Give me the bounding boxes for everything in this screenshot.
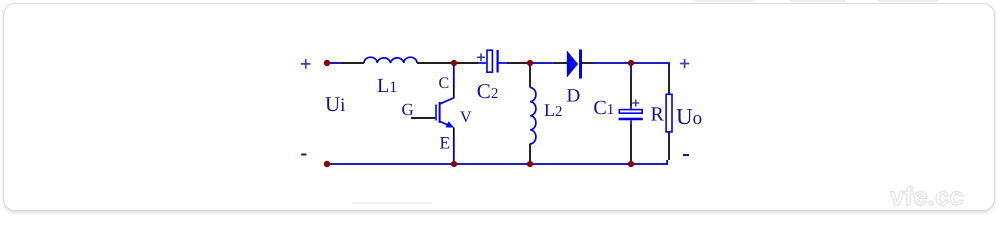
svg-text:R: R (651, 103, 665, 125)
svg-text:C2: C2 (477, 79, 499, 103)
svg-text:L2: L2 (544, 100, 563, 120)
svg-text:Uo: Uo (676, 104, 702, 129)
svg-text:E: E (440, 132, 451, 152)
svg-text:V: V (460, 109, 472, 126)
svg-text:D: D (567, 86, 581, 107)
svg-text:C1: C1 (593, 97, 614, 119)
svg-text:L1: L1 (377, 75, 397, 97)
svg-text:G: G (402, 100, 414, 119)
svg-text:Ui: Ui (325, 92, 345, 116)
svg-text:C: C (439, 75, 450, 92)
